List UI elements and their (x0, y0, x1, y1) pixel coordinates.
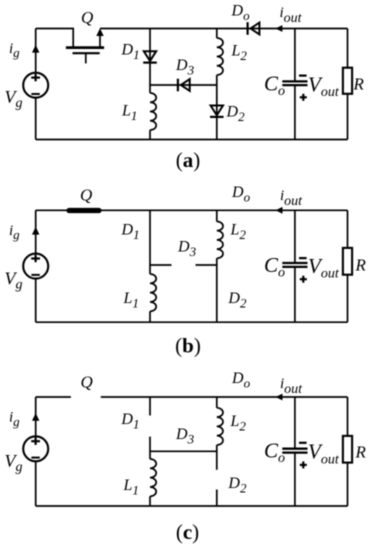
wire: right rail lower (b) (347, 275, 349, 323)
diode D2 (a) (210, 106, 224, 117)
wire: L2 branch top stub (a) (216, 29, 218, 39)
inductor L2 coil (c) (217, 408, 223, 445)
wire: L1 to bottom rail (b) (149, 311, 151, 322)
current arrow ig (c) (32, 413, 39, 421)
wire: L2 to D2 vertical (a) (216, 75, 218, 140)
wire: capacitor branch upper (b) (294, 210, 296, 263)
wire: right rail lower (a) (347, 94, 349, 140)
wire: right rail upper (c) (347, 397, 349, 436)
voltage source Vg (c) (23, 436, 48, 461)
wire: L2 branch top stub (b) (216, 210, 218, 221)
wire: D2 branch open bottom stub (c) (216, 490, 218, 507)
inductor L2 coil (a) (217, 38, 223, 75)
voltage source Vg (a) (23, 73, 48, 98)
transistor Q1 MOSFET switch (a) (66, 28, 104, 64)
wire: top rail (b) (36, 209, 348, 211)
diode D3 (a) (178, 79, 190, 92)
wire: D1 branch open top stub (c) (149, 397, 151, 416)
wire: middle rail right stub, D3 open (b) (196, 264, 217, 266)
wire: D1 branch conducting vertical (b) (149, 210, 151, 265)
polarity plus of Vout (c) (300, 464, 307, 466)
wire: capacitor branch lower (a) (294, 85, 296, 139)
wire: top rail right segment (a) (100, 28, 348, 30)
current arrow iout (c) (276, 394, 283, 401)
resistor R (b) (343, 248, 352, 275)
wire: D1-L1 branch vertical (a) (149, 29, 151, 94)
wire: left rail lower (b) (35, 279, 37, 323)
polarity minus of Vout (c) (299, 442, 307, 444)
svg-text:Q: Q (80, 185, 92, 204)
wire: left rail lower (c) (35, 461, 37, 506)
wire: capacitor branch upper (a) (294, 29, 296, 82)
wire: right rail upper (b) (347, 210, 349, 248)
wire: bottom rail (c) (36, 505, 348, 507)
wire: bottom rail (a) (36, 139, 348, 141)
polarity minus of Vout (a) (299, 74, 307, 76)
wire: top rail right of open switch (c) (101, 396, 348, 398)
polarity plus of Vout (a) (300, 96, 307, 98)
svg-text:Q: Q (81, 8, 93, 27)
svg-text:R: R (355, 256, 367, 275)
current arrow ig (a) (32, 45, 39, 53)
wire: capacitor branch lower (c) (294, 453, 296, 506)
inductor L1 coil (a) (150, 93, 156, 130)
wire: top rail left of open switch (c) (36, 396, 71, 398)
resistor R (c) (343, 436, 352, 463)
capacitor Co (b) (282, 263, 307, 267)
voltage source Vg (b) (23, 254, 48, 279)
capacitor Co (c) (282, 449, 307, 453)
current arrow ig (b) (32, 227, 39, 235)
polarity plus of Vout (b) (300, 278, 307, 280)
wire: L2 to middle rail and D2 top stub (c) (216, 445, 218, 470)
wire: node to L1 (b) (149, 265, 151, 274)
polarity minus of Vout (b) (299, 257, 307, 259)
inductor L2 coil (b) (217, 222, 223, 259)
wire: L1 to bottom rail (c) (149, 496, 151, 506)
wire: D2 branch conducting vertical (b) (216, 258, 218, 322)
wire: middle rail left stub, D3 open (b) (150, 264, 172, 266)
switch Q closed (thick bar) (b) (69, 208, 99, 213)
wire: D1 branch open bottom stub (c) (149, 437, 151, 459)
wire: right rail upper (a) (347, 29, 349, 68)
wire: left rail upper (b) (35, 210, 37, 253)
wire: L1 to bottom rail (a) (149, 130, 151, 140)
svg-text:R: R (355, 443, 367, 462)
wire: left rail lower (a) (35, 98, 37, 140)
current arrow iout (a) (275, 25, 282, 32)
diode Do (a) (248, 22, 260, 35)
wire: left rail upper (c) (35, 397, 37, 436)
svg-text:(c): (c) (176, 520, 199, 544)
wire: middle rail D3 (a) (150, 84, 217, 86)
diode D1 (a) (143, 51, 157, 62)
wire: capacitor branch upper (c) (294, 397, 296, 449)
inductor L1 coil (b) (150, 274, 156, 311)
inductor L1 coil (c) (150, 459, 156, 496)
current arrow iout (b) (276, 207, 283, 214)
svg-text:R: R (353, 74, 365, 93)
wire: capacitor branch lower (b) (294, 267, 296, 322)
svg-text:(b): (b) (175, 334, 201, 358)
wire: top rail left segment (a) (36, 28, 73, 30)
resistor R (a) (343, 68, 352, 94)
svg-text:(a): (a) (176, 148, 201, 172)
wire: L2 branch top stub (c) (216, 397, 218, 408)
wire: right rail lower (c) (347, 463, 349, 506)
wire: left rail upper (a) (35, 29, 37, 73)
wire: middle rail D3 conducting (c) (150, 450, 217, 452)
capacitor Co (a) (282, 81, 307, 85)
svg-text:Q: Q (81, 372, 93, 391)
wire: bottom rail (b) (36, 321, 348, 323)
